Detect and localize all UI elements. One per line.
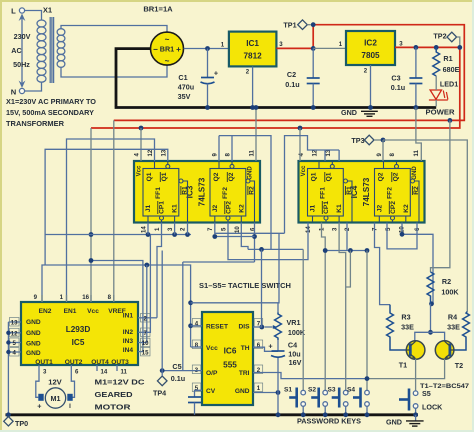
wire IC4 GND to bus [416, 108, 421, 162]
test point TP0 [4, 412, 28, 428]
svg-text:C1: C1 [178, 73, 187, 82]
IC1 7812 [229, 32, 277, 67]
svg-text:GND: GND [247, 166, 254, 180]
svg-text:14: 14 [141, 226, 148, 233]
svg-text:EN2: EN2 [39, 308, 52, 315]
wire IC3 Q1bar route [45, 149, 168, 265]
svg-text:0.1u: 0.1u [171, 374, 185, 383]
svg-text:CP1: CP1 [323, 201, 330, 214]
IC3 74LS73 body [134, 161, 260, 223]
svg-text:R1: R1 [443, 54, 452, 63]
test point TP1 [283, 20, 310, 30]
collector rail [415, 332, 445, 341]
tactile switch S2 [308, 387, 328, 418]
IC4 internal pin stubs and bubbles [313, 161, 406, 223]
flip-flop FF2 of IC4 [375, 169, 411, 217]
node VR1 top tee [188, 300, 193, 305]
capacitor C2 [285, 48, 319, 107]
test point TP2 [433, 32, 459, 46]
wire rail B to DIS [261, 249, 263, 327]
svg-text:16: 16 [82, 294, 89, 301]
IC5 left pins 13 12 5 4 [8, 318, 21, 357]
IC4 bottom pin numbers [305, 226, 421, 233]
tactile switch S4 [347, 387, 369, 418]
svg-text:35V: 35V [178, 92, 191, 101]
wire S3 aux riser [346, 251, 351, 288]
svg-text:J1: J1 [145, 205, 152, 213]
svg-text:IC6: IC6 [224, 347, 237, 356]
node IC3 Vcc tap [139, 126, 144, 131]
capacitor C1 [178, 49, 219, 108]
svg-text:R4: R4 [448, 313, 457, 322]
svg-text:Vcc: Vcc [206, 345, 218, 352]
wire IC3 R2 to rail B [254, 223, 256, 263]
wire secondary bottom to BR1 [61, 65, 167, 77]
reset R1 of IC4 FF1 [344, 179, 354, 222]
note X1 transformer spec [6, 97, 96, 128]
transistor T1 BC547 [399, 341, 425, 370]
IC5 right pins 2 7 10 15 [138, 235, 157, 357]
svg-text:OUT2: OUT2 [65, 359, 83, 366]
svg-text:MOTOR: MOTOR [95, 403, 132, 412]
svg-text:IN3: IN3 [123, 338, 134, 345]
svg-text:T1: T1 [399, 361, 407, 370]
svg-text:6: 6 [257, 342, 261, 349]
svg-text:L293D: L293D [66, 325, 91, 334]
wire IC3 J2 down [215, 223, 285, 234]
svg-text:Vcc: Vcc [87, 308, 99, 315]
wire IC3 K2 down [241, 223, 248, 250]
GND bus bottom thick black [6, 413, 419, 416]
wire IC3 pin3 to IN2 [174, 234, 176, 236]
wire TP3 to IC4 pin9 [382, 140, 384, 161]
wire IC3 GND to bus [255, 108, 257, 162]
flip-flop FF1 of IC4 [308, 169, 344, 217]
wire IC3 Vcc [140, 128, 142, 161]
wire reset stub [191, 325, 202, 327]
svg-text:4: 4 [13, 350, 17, 357]
svg-text:IC5: IC5 [72, 338, 85, 347]
wire IC4 Q1/Q1bar route [285, 136, 340, 234]
svg-text:TRI: TRI [239, 370, 250, 377]
svg-text:PASSWORD KEYS: PASSWORD KEYS [297, 417, 361, 426]
IC6 555 body [202, 312, 253, 405]
svg-text:C5: C5 [172, 362, 181, 371]
wire IC3 Q1 route [67, 139, 155, 302]
+5V red rail right drop [91, 47, 460, 128]
svg-text:K1: K1 [336, 204, 343, 213]
wire T1 emitter to S5 [415, 359, 417, 391]
node +12V R2 tap [448, 118, 453, 123]
node gnd rail joints [6, 331, 10, 355]
svg-text:T2: T2 [455, 361, 463, 370]
IC5 L293D body [21, 302, 138, 366]
svg-text:CP1: CP1 [159, 201, 166, 214]
node IC4 pin10 [400, 232, 405, 237]
node rail A R1 [185, 232, 190, 237]
terminal N [11, 88, 25, 97]
wire IC3 J1 down [147, 223, 149, 235]
node TP3/Q2 [381, 138, 386, 143]
svg-text:S3: S3 [327, 387, 335, 394]
svg-text:+: + [268, 342, 272, 351]
svg-text:C4: C4 [288, 341, 297, 350]
node C3 gnd [414, 105, 419, 110]
wire IC3 Q2/Q2bar route [219, 136, 271, 250]
wire red riser TP1 [312, 25, 314, 49]
wire S1 riser to IC4 pin14 [302, 249, 304, 391]
svg-text:230V: 230V [14, 32, 31, 41]
motor M1 [36, 372, 75, 411]
svg-text:C2: C2 [287, 70, 296, 79]
svg-text:0.1u: 0.1u [391, 83, 405, 92]
svg-text:470u: 470u [178, 83, 194, 92]
svg-text:IN4: IN4 [123, 347, 134, 354]
svg-text:TH: TH [241, 345, 250, 352]
svg-text:11: 11 [413, 149, 420, 156]
reset R2 of FF2 [246, 179, 256, 222]
wire S4 riser [366, 251, 368, 392]
node TP2/IC2 out [457, 45, 462, 50]
wire IC4 pin7 to R3 [375, 223, 391, 305]
svg-text:X1: X1 [43, 6, 53, 15]
svg-text:AC: AC [11, 46, 21, 55]
ground symbol top [341, 105, 378, 117]
svg-text:IN2: IN2 [123, 329, 134, 336]
wire IC4 pin2 down [346, 223, 348, 251]
svg-text:TP2: TP2 [433, 32, 446, 41]
svg-text:C3: C3 [391, 74, 400, 83]
tactile switch S5 LOCK [399, 389, 443, 418]
pin 2 IC2 [364, 65, 371, 108]
node R2 bottom joint [429, 301, 434, 306]
wire IC3 CP2 to IN2 [228, 223, 308, 260]
svg-text:1: 1 [257, 385, 261, 392]
svg-text:CP2: CP2 [390, 201, 397, 214]
svg-text:555: 555 [223, 361, 237, 370]
node VR1 wiper / DIS [259, 325, 264, 330]
node rail A J1 [146, 232, 151, 237]
wire L to primary [25, 11, 42, 21]
capacitor C5 0.1u [171, 362, 202, 415]
label M1 geared motor [95, 378, 146, 412]
svg-text:~: ~ [165, 35, 170, 44]
svg-text:Q1: Q1 [161, 172, 168, 181]
svg-text:7812: 7812 [243, 52, 262, 61]
svg-text:TRANSFORMER: TRANSFORMER [6, 119, 65, 128]
wire to IC2 pin1 [313, 47, 346, 49]
wire TH stub [253, 347, 278, 351]
wire R2 to collector rail [430, 304, 432, 333]
IC3 bottom pin numbers [141, 226, 257, 233]
test point TP3 [351, 135, 381, 145]
svg-text:VR1: VR1 [287, 318, 301, 327]
wire N to primary [25, 82, 42, 91]
svg-text:LOCK: LOCK [422, 403, 443, 412]
svg-text:~: ~ [165, 57, 170, 66]
wire T2 emitter rail [367, 359, 445, 379]
svg-text:Q2: Q2 [378, 172, 385, 181]
svg-text:LED1: LED1 [440, 80, 458, 89]
node IN4 tap [89, 258, 94, 263]
node rail B left [259, 247, 264, 252]
svg-text:DIS: DIS [239, 324, 251, 331]
svg-text:Q2: Q2 [393, 172, 400, 181]
svg-text:33E: 33E [447, 323, 460, 332]
node TP4 [160, 368, 165, 373]
svg-text:OUT1: OUT1 [35, 359, 53, 366]
svg-text:GND: GND [341, 108, 357, 117]
transformer X1 [37, 17, 65, 83]
svg-text:GND: GND [26, 330, 41, 337]
wire IN4 route [91, 261, 143, 352]
svg-text:X1=230V AC PRIMARY TO: X1=230V AC PRIMARY TO [6, 97, 96, 106]
svg-text:S1–S5= TACTILE SWITCH: S1–S5= TACTILE SWITCH [199, 281, 291, 290]
svg-text:IC2: IC2 [364, 39, 377, 48]
svg-text:GND: GND [26, 341, 41, 348]
node 555 gnd [276, 390, 281, 395]
wire TP3 rail to R4 [383, 140, 467, 312]
resistor R3 33E [387, 305, 414, 350]
svg-text:680E: 680E [443, 65, 460, 74]
wire IC5 gnd rail to bus [7, 322, 9, 415]
wire BR1 plus to IC1 pin1 [184, 48, 229, 50]
svg-text:J2: J2 [377, 205, 384, 213]
wire IC3 R1bar down [187, 223, 189, 235]
svg-text:5: 5 [13, 340, 17, 347]
wire EN2 from rail [42, 265, 45, 302]
svg-text:K2: K2 [403, 204, 410, 213]
wire TP4 riser [161, 251, 163, 371]
svg-text:R2: R2 [442, 277, 451, 286]
mains arrow [19, 14, 26, 89]
svg-text:FF1: FF1 [155, 187, 162, 199]
svg-text:Q1: Q1 [146, 172, 153, 181]
potentiometer VR1 100K [265, 313, 306, 341]
node emitter rail S4 [365, 376, 370, 381]
svg-text:11: 11 [249, 149, 256, 156]
svg-text:10: 10 [234, 226, 241, 233]
svg-text:R3: R3 [401, 313, 410, 322]
svg-text:50Hz: 50Hz [13, 60, 30, 69]
LED1 [429, 76, 458, 106]
svg-text:100K: 100K [441, 288, 459, 297]
capacitor C3 [391, 47, 423, 107]
svg-text:POWER: POWER [426, 108, 456, 117]
wire IC2 out red [395, 46, 460, 48]
pin 2 IC1 [246, 66, 253, 107]
svg-text:TP4: TP4 [153, 389, 166, 398]
svg-text:2: 2 [144, 316, 148, 323]
svg-text:16V: 16V [289, 358, 302, 367]
test point TP4 [153, 371, 167, 398]
svg-text:BR1=1A: BR1=1A [143, 5, 173, 14]
ground symbol bottom [386, 415, 424, 427]
svg-text:K1: K1 [172, 204, 179, 213]
wire IC4 pin5/pin6 jog [387, 223, 417, 249]
IC5 bottom pin numbers [39, 365, 128, 376]
svg-text:Vcc: Vcc [300, 165, 307, 176]
wire S2 riser to IC4 pin1 [322, 223, 326, 392]
svg-text:11: 11 [121, 369, 128, 376]
wire BR1 minus thick black [116, 49, 150, 107]
svg-text:74LS73: 74LS73 [362, 177, 371, 206]
svg-text:EN1: EN1 [64, 308, 77, 315]
capacitor C4 10u [268, 340, 301, 367]
resistor R1 680E [433, 47, 460, 76]
resistor R4 33E [447, 312, 469, 351]
svg-text:S2: S2 [308, 387, 316, 394]
svg-text:CV: CV [206, 388, 216, 395]
svg-text:Q2: Q2 [213, 172, 220, 181]
wire IC4 Vcc [299, 128, 301, 161]
wire Vcc stub [191, 346, 202, 348]
svg-text:12V: 12V [48, 378, 62, 387]
svg-text:+: + [214, 69, 218, 78]
svg-text:RESET: RESET [206, 324, 228, 331]
IC3 top pin numbers [134, 149, 256, 156]
tactile switch S1 [284, 387, 306, 418]
svg-text:GND: GND [26, 350, 41, 357]
svg-text:O/P: O/P [206, 370, 218, 377]
svg-text:GEARED: GEARED [95, 390, 134, 399]
svg-text:N: N [11, 88, 16, 97]
svg-text:FF2: FF2 [222, 187, 229, 199]
svg-text:−: − [153, 45, 158, 54]
svg-text:Q1: Q1 [311, 172, 318, 181]
svg-text:S1: S1 [284, 387, 292, 394]
transistor T2 BC547 [435, 341, 463, 370]
wire O/P to TP4 [162, 370, 202, 372]
+12V red top rail [114, 25, 465, 121]
svg-text:33E: 33E [401, 323, 414, 332]
wire TRI line [253, 373, 367, 379]
svg-text:I: I [69, 403, 71, 410]
svg-text:+: + [176, 45, 181, 54]
svg-text:M1: M1 [51, 394, 61, 403]
node R1 top [434, 45, 439, 50]
IC2 7805 [346, 31, 395, 65]
node rail B S3 [348, 248, 353, 253]
node rail A / +5V [89, 232, 94, 237]
wire aux riser [182, 262, 184, 371]
terminal L [11, 7, 24, 16]
node collector rail [428, 330, 433, 335]
rail y265 to reset [45, 265, 191, 347]
reset R1 of FF1 [179, 179, 189, 222]
svg-text:GND: GND [386, 418, 402, 427]
wire +12V feed to IC5 VREF [113, 120, 115, 302]
svg-text:7: 7 [144, 330, 148, 337]
svg-text:FF1: FF1 [320, 187, 327, 199]
svg-text:74LS73: 74LS73 [198, 177, 207, 206]
wire C4/VR1 bottom to bus [277, 357, 279, 415]
svg-text:15: 15 [142, 349, 149, 356]
IC3 internal pin stubs and bubbles [148, 161, 241, 223]
svg-text:13: 13 [11, 320, 18, 327]
svg-text:K2: K2 [239, 204, 246, 213]
node C1 gnd [205, 105, 210, 110]
svg-text:GND: GND [26, 319, 41, 326]
svg-text:12: 12 [11, 330, 18, 337]
svg-text:FF2: FF2 [387, 187, 394, 199]
svg-text:Q2: Q2 [228, 172, 235, 181]
svg-text:OUT4: OUT4 [91, 359, 109, 366]
svg-text:+: + [37, 402, 41, 411]
node rail A K1 [172, 232, 177, 237]
svg-text:GND: GND [411, 166, 418, 180]
bridge rectifier BR1 [151, 32, 184, 65]
svg-text:IN1: IN1 [123, 313, 134, 320]
svg-text:CP2: CP2 [226, 201, 233, 214]
node IC6 reset [188, 323, 193, 328]
wire IC1 out red [276, 47, 313, 49]
node rail 265 IN3 [144, 263, 149, 268]
svg-text:14: 14 [101, 369, 108, 376]
IC4 74LS73 body [299, 161, 425, 223]
svg-text:0.1u: 0.1u [285, 80, 299, 89]
IC5 top pin numbers [34, 294, 114, 302]
node IC4 Vcc tap [298, 126, 303, 131]
GND bus top thick black [115, 106, 437, 109]
wire GND pin1 to C4 drop [253, 392, 278, 394]
svg-text:IC1: IC1 [246, 39, 259, 48]
svg-text:J2: J2 [212, 205, 219, 213]
svg-text:10: 10 [142, 340, 149, 347]
svg-text:Q1: Q1 [326, 172, 333, 181]
IC4 top pin numbers [298, 149, 420, 156]
svg-text:7805: 7805 [361, 51, 380, 60]
svg-text:TP1: TP1 [283, 21, 296, 30]
svg-text:TP3: TP3 [351, 136, 364, 145]
flip-flop FF2 of IC3 [210, 169, 246, 217]
wire +12V to R2 [431, 120, 450, 272]
svg-text:15V, 500mA SECONDARY: 15V, 500mA SECONDARY [6, 108, 94, 117]
svg-text:GND: GND [235, 388, 250, 395]
reset R2 of IC4 FF2 [411, 179, 421, 222]
node IC1 out [311, 46, 316, 51]
svg-text:OUT3: OUT3 [111, 359, 129, 366]
svg-text:TP0: TP0 [15, 419, 28, 428]
wire IC4 pin10 to R2 base rail [402, 223, 433, 304]
wire +5V feed to IC5 Vcc [90, 128, 92, 302]
svg-text:S5: S5 [422, 389, 431, 398]
rail A below IC3 [45, 234, 191, 236]
wire DIS stub [253, 326, 262, 328]
flip-flop FF1 of IC3 [143, 169, 179, 217]
svg-text:S4: S4 [347, 387, 355, 394]
wire IC3 CP1 to IN1 [157, 223, 162, 318]
rail B below IC4 [248, 248, 303, 250]
svg-text:M1=12V DC: M1=12V DC [95, 378, 146, 387]
svg-text:13: 13 [160, 149, 167, 156]
node IC1 pin2 gnd [250, 105, 255, 110]
svg-text:Vcc: Vcc [136, 165, 143, 176]
wire IN3 riser [146, 265, 148, 343]
node IC3 GND bus [254, 105, 259, 110]
wire secondary top to BR1 [61, 26, 167, 33]
svg-text:J1: J1 [310, 205, 317, 213]
wire VR1 top feed [191, 233, 279, 302]
node TP1 [311, 22, 316, 27]
node BR1+/C1 [205, 46, 210, 51]
IC6 pin number boxes [192, 319, 262, 393]
label 230V AC 50Hz [11, 32, 30, 69]
node rail B S4 [365, 248, 370, 253]
wire IC3 K1 down [174, 223, 176, 235]
node C3 top [414, 45, 419, 50]
node C4 bus [276, 412, 281, 417]
